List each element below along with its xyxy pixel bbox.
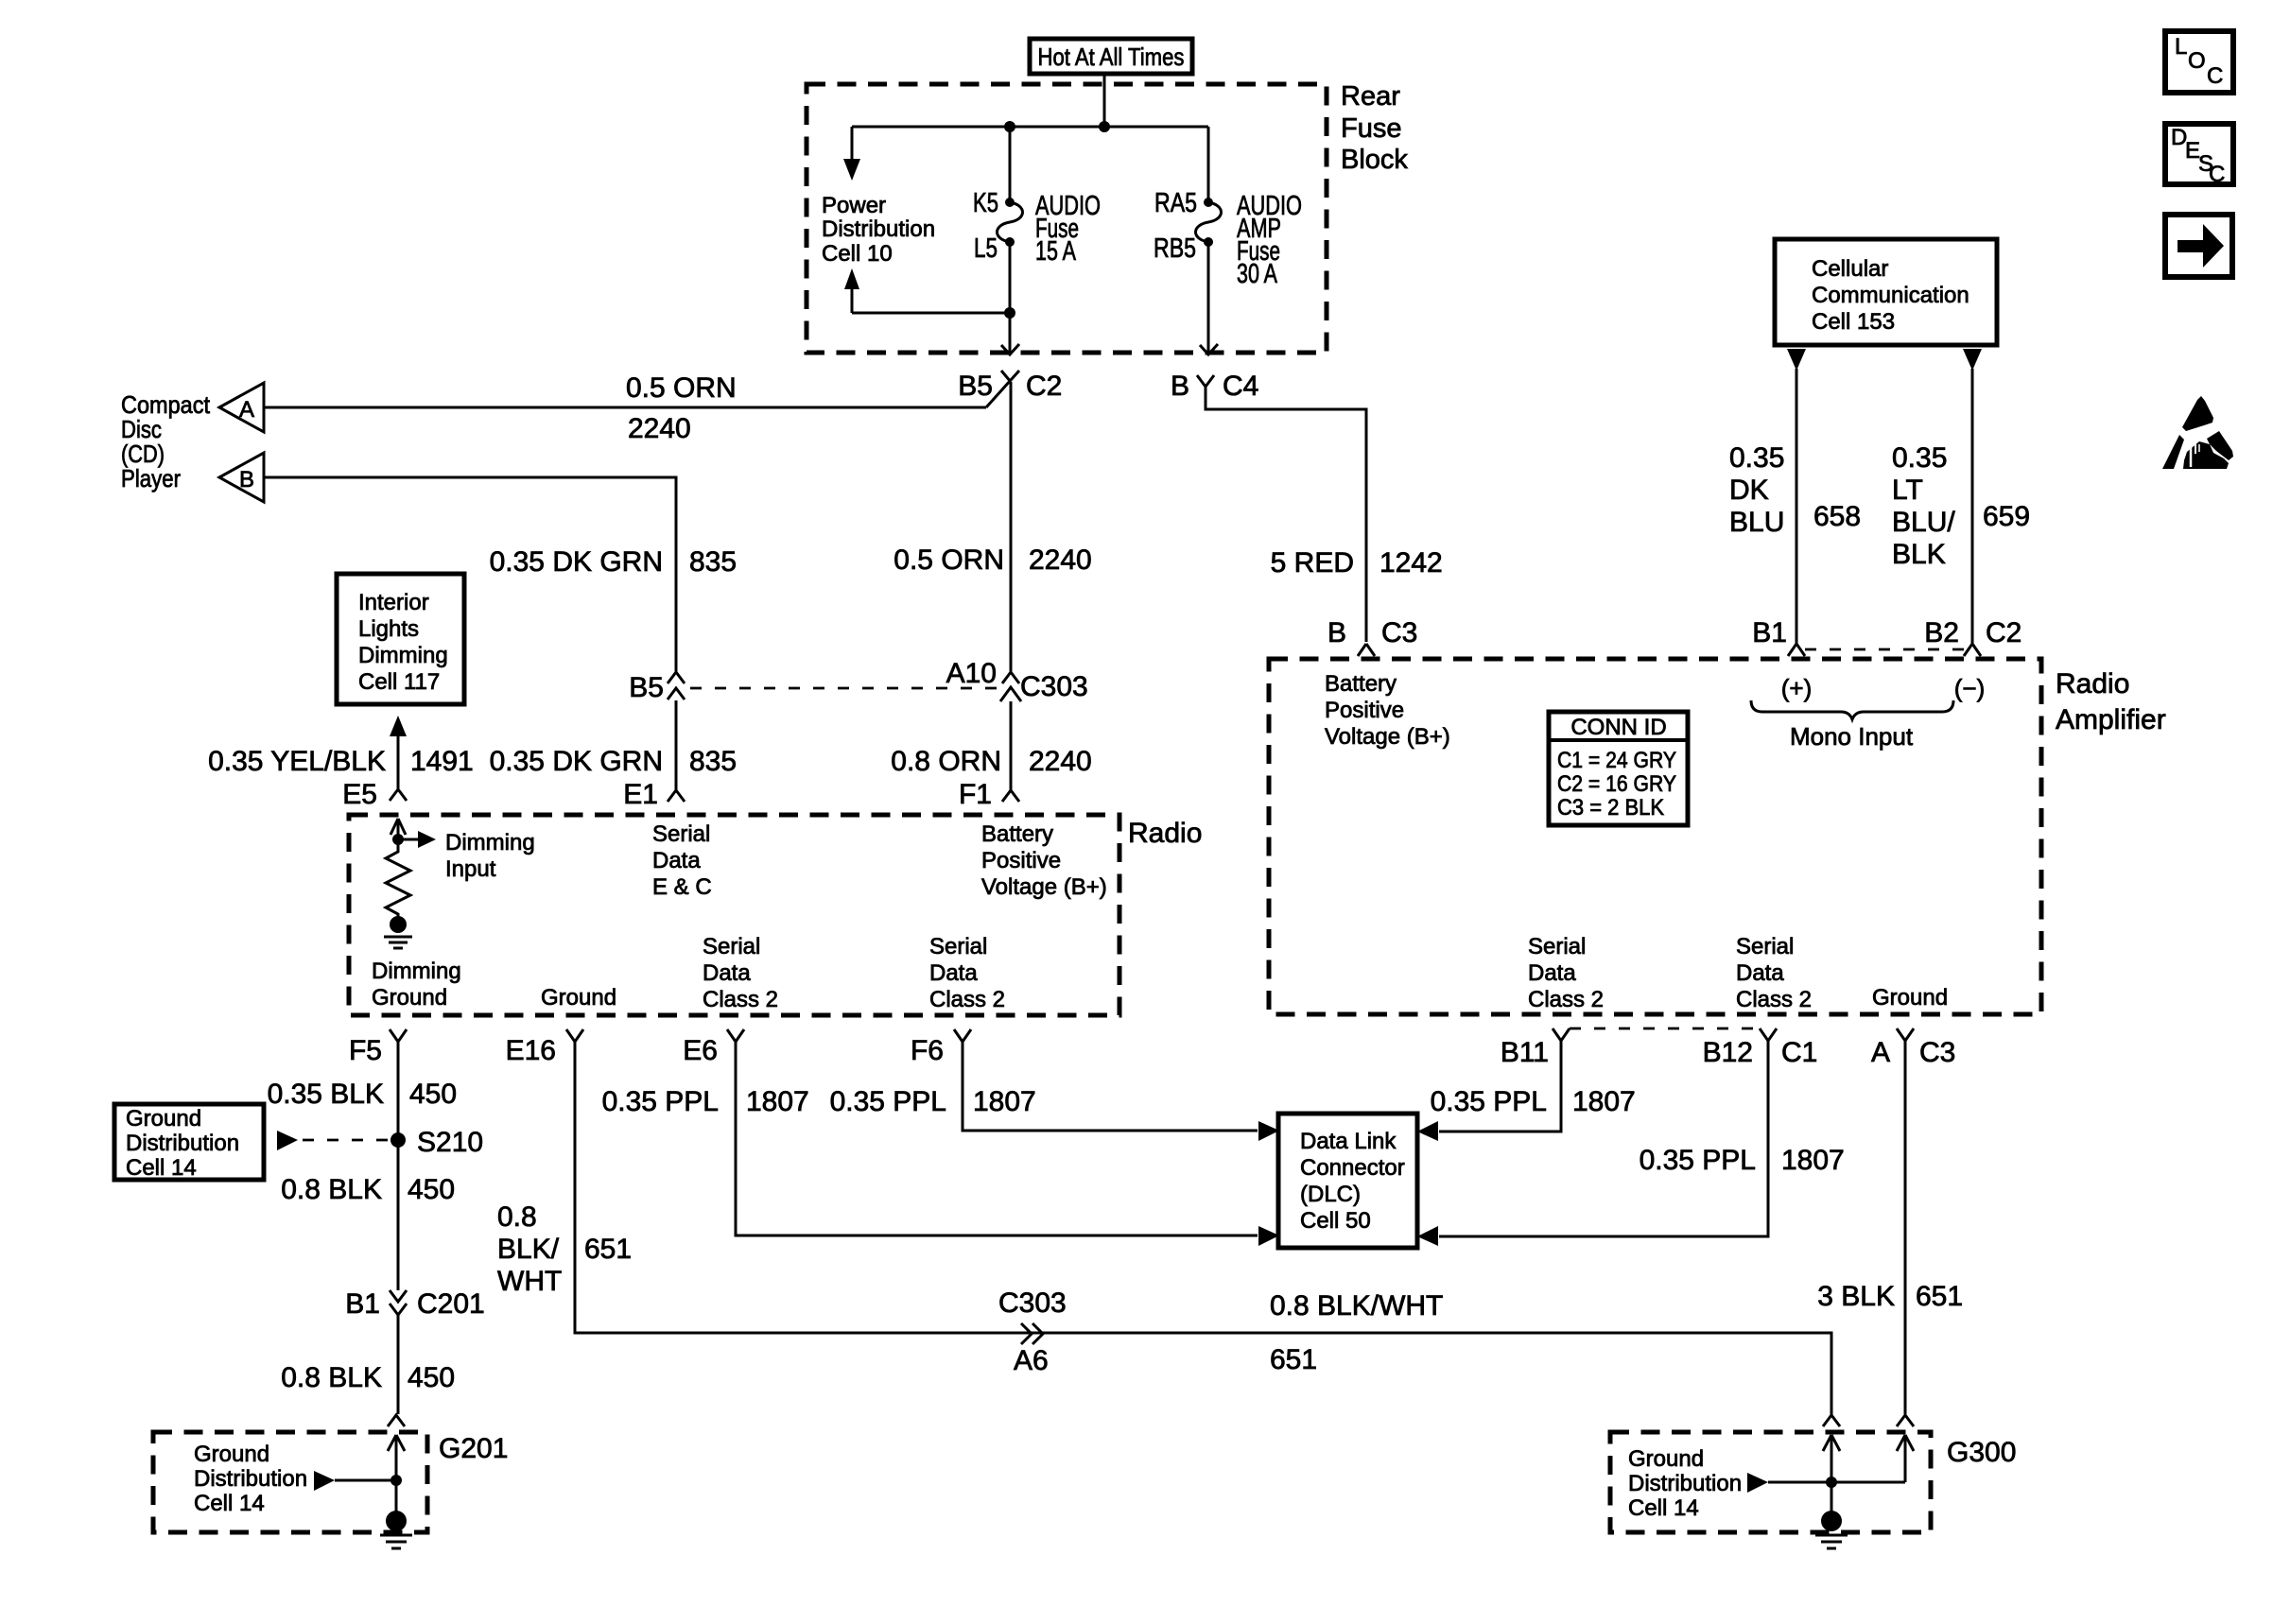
svg-text:Voltage (B+): Voltage (B+) — [1325, 724, 1450, 750]
dashed wire to S210 — [303, 1139, 388, 1142]
svg-text:0.8: 0.8 — [497, 1201, 537, 1233]
svg-text:CONN ID: CONN ID — [1570, 715, 1666, 740]
svg-text:2240: 2240 — [1029, 746, 1092, 777]
svg-text:L: L — [2175, 34, 2187, 60]
svg-text:659: 659 — [1983, 501, 2030, 532]
svg-text:WHT: WHT — [497, 1266, 562, 1297]
label Ground Distribution Cell 14 in G300 — [1628, 1446, 1742, 1521]
dimming input arrow inside radio — [390, 819, 406, 838]
label Battery Positive Voltage (B+) in amp — [1325, 671, 1450, 750]
svg-text:B: B — [1327, 617, 1346, 648]
svg-text:1242: 1242 — [1379, 547, 1443, 579]
label Serial Data Class 2 at F6 — [929, 934, 1005, 1012]
svg-text:Serial: Serial — [1528, 934, 1586, 959]
svg-text:Communication: Communication — [1812, 283, 1969, 308]
dashed pair line B1 B2 — [1805, 648, 1964, 651]
CD player triangle B — [219, 453, 264, 502]
svg-text:G300: G300 — [1947, 1437, 2016, 1468]
svg-text:B11: B11 — [1501, 1037, 1549, 1068]
label Battery Positive Voltage (B+) in radio — [981, 821, 1107, 900]
junction dot — [1004, 307, 1015, 319]
arrow into G201 — [388, 1435, 405, 1480]
svg-text:Lights: Lights — [358, 616, 419, 642]
svg-text:Class 2: Class 2 — [1736, 987, 1812, 1012]
connector B11 chevron — [1553, 1028, 1570, 1041]
svg-text:Dimming: Dimming — [358, 643, 448, 668]
dashed pair line B11 B12 — [1570, 1028, 1760, 1030]
wire E6 to DLC — [736, 1042, 1258, 1235]
svg-text:Distribution: Distribution — [822, 216, 935, 242]
arrow into DLC upper right — [1417, 1121, 1438, 1141]
svg-text:C: C — [2209, 162, 2225, 187]
svg-text:BLK/: BLK/ — [497, 1234, 560, 1265]
svg-text:0.35 PPL: 0.35 PPL — [602, 1086, 719, 1117]
arrow to Power Distribution — [843, 127, 860, 181]
svg-text:Battery: Battery — [1325, 671, 1397, 697]
arrow into G300 left — [1823, 1435, 1840, 1480]
wire A to G300 — [1904, 1041, 1907, 1414]
svg-text:Power: Power — [822, 193, 886, 218]
label 0.35 PPL 1807 at B12 — [1640, 1145, 1845, 1176]
svg-text:B5: B5 — [958, 371, 993, 402]
svg-text:1807: 1807 — [1572, 1086, 1636, 1117]
label 3 BLK 651 — [1817, 1281, 1963, 1312]
svg-text:Serial: Serial — [652, 821, 710, 847]
svg-text:Cell 117: Cell 117 — [358, 669, 440, 695]
svg-text:(DLC): (DLC) — [1300, 1182, 1361, 1207]
label 0.35 DK BLU 658 — [1729, 442, 1861, 538]
svg-text:Data: Data — [652, 848, 701, 873]
svg-text:Ground: Ground — [372, 985, 447, 1011]
wire from B5 chevron down to radio E1 — [675, 700, 678, 790]
Ground Distribution Cell 14 box upper left — [114, 1104, 264, 1181]
svg-text:BLU: BLU — [1729, 507, 1784, 538]
label 5 RED 1242 — [1271, 547, 1443, 579]
label 0.5 ORN 2240 — [626, 372, 737, 444]
svg-text:C201: C201 — [417, 1288, 485, 1320]
svg-text:E1: E1 — [623, 779, 658, 810]
svg-text:C1 = 24 GRY: C1 = 24 GRY — [1557, 748, 1676, 773]
svg-text:1807: 1807 — [746, 1086, 809, 1117]
svg-text:C2: C2 — [1986, 617, 2021, 648]
svg-text:658: 658 — [1813, 501, 1861, 532]
connector C4 Y symbol — [1197, 375, 1214, 387]
wire C4 to radio amplifier C3 — [1206, 387, 1366, 642]
label 0.35 LT BLU/ BLK 659 — [1892, 442, 2030, 570]
label Compact Disc (CD) Player — [121, 390, 211, 492]
svg-text:1807: 1807 — [973, 1086, 1036, 1117]
svg-text:Voltage (B+): Voltage (B+) — [981, 874, 1107, 900]
svg-text:Player: Player — [121, 464, 181, 492]
label 0.8 BLK/ WHT 651 — [497, 1201, 632, 1297]
connector E16 chevron — [566, 1029, 583, 1042]
svg-text:E5: E5 — [342, 779, 377, 810]
svg-text:Fuse: Fuse — [1341, 113, 1401, 144]
wire from rail to connector C2 with harpoon — [1001, 313, 1019, 354]
arrow icon box — [2165, 215, 2232, 277]
svg-text:Data Link: Data Link — [1300, 1129, 1397, 1154]
connector C3 pin B chevron — [1358, 644, 1375, 656]
svg-text:Dimming: Dimming — [445, 830, 535, 855]
svg-text:1807: 1807 — [1781, 1145, 1845, 1176]
Radio dashed box — [349, 815, 1119, 1015]
svg-text:C: C — [2207, 63, 2223, 89]
connector C303 pin A10 double chevron — [1000, 672, 1021, 701]
svg-text:Connector: Connector — [1300, 1155, 1405, 1181]
connector chevron above G300 left — [1823, 1415, 1840, 1426]
ESD symbol — [2162, 396, 2233, 469]
svg-text:30 A: 30 A — [1237, 259, 1277, 289]
wire from Hot At All Times into fuse block — [1103, 74, 1106, 127]
connector C3 pin A chevron — [1897, 1028, 1914, 1041]
svg-text:Mono Input: Mono Input — [1790, 722, 1914, 751]
connector C2 Y symbol with diagonal feed — [986, 371, 1019, 407]
dot at resistor bottom — [390, 916, 407, 933]
svg-text:B: B — [239, 467, 254, 492]
wire from fuse to lower rail — [1009, 242, 1012, 313]
arrow into G300 right — [1897, 1435, 1914, 1482]
svg-text:A: A — [1871, 1037, 1890, 1068]
svg-text:0.35 DK GRN: 0.35 DK GRN — [490, 746, 663, 777]
label Dimming Ground — [372, 959, 461, 1011]
arrow into DLC lower right — [1417, 1226, 1438, 1246]
wire to ground G300 — [1831, 1482, 1833, 1516]
svg-text:2240: 2240 — [628, 413, 691, 444]
fuse AUDIO 15 A — [998, 198, 1023, 247]
inline connector C303 pin A6 on ground run — [1021, 1323, 1043, 1344]
svg-text:Serial: Serial — [929, 934, 987, 959]
label AUDIO AMP Fuse 30 A — [1237, 191, 1302, 289]
svg-text:Class 2: Class 2 — [703, 987, 778, 1012]
svg-text:15 A: 15 A — [1035, 236, 1076, 267]
svg-text:Cell 14: Cell 14 — [126, 1155, 197, 1181]
connector B1 chevron — [1788, 644, 1805, 656]
svg-text:C3: C3 — [1381, 617, 1417, 648]
label 0.35 PPL 1807 at B11 — [1431, 1086, 1636, 1117]
svg-text:Serial: Serial — [703, 934, 760, 959]
svg-text:B: B — [1171, 371, 1189, 402]
Interior Lights Dimming box — [337, 574, 464, 704]
svg-text:LT: LT — [1892, 475, 1923, 506]
label 0.35 DK GRN 835 upper — [490, 546, 737, 578]
CONN ID table — [1549, 712, 1688, 825]
svg-text:Dimming: Dimming — [372, 959, 461, 984]
svg-text:Cell 14: Cell 14 — [1628, 1495, 1699, 1521]
splice S210 — [390, 1132, 406, 1148]
label 0.8 BLK 450 lower — [281, 1362, 455, 1393]
junction dot G201 — [390, 1475, 402, 1486]
label 0.8 ORN 2240 — [891, 746, 1091, 777]
wire to AUDIO AMP fuse — [1207, 127, 1210, 201]
connector E5 chevron — [390, 789, 407, 801]
svg-text:0.35 DK GRN: 0.35 DK GRN — [490, 546, 663, 578]
svg-text:0.35 PPL: 0.35 PPL — [830, 1086, 946, 1117]
svg-text:Data: Data — [929, 960, 978, 986]
svg-text:Input: Input — [445, 856, 496, 882]
wire from S210 to C201 — [397, 1140, 400, 1290]
connector E6 chevron — [727, 1029, 744, 1042]
svg-text:L5: L5 — [974, 233, 998, 264]
svg-text:450: 450 — [408, 1174, 455, 1205]
svg-text:C303: C303 — [1020, 671, 1088, 702]
brace mono input — [1751, 700, 1953, 719]
svg-text:BLK: BLK — [1892, 539, 1946, 570]
svg-text:C3 = 2 BLK: C3 = 2 BLK — [1557, 795, 1664, 821]
connector C201 pin B1 double chevron — [390, 1290, 407, 1414]
svg-text:A: A — [239, 397, 254, 423]
ground symbol dimming — [384, 937, 412, 948]
resistor dimming — [386, 839, 410, 917]
svg-text:Ground: Ground — [126, 1106, 201, 1132]
CD player triangle A — [219, 383, 264, 432]
wire B11 to DLC — [1439, 1041, 1561, 1132]
wire from A10 down to radio F1 — [1010, 701, 1013, 790]
fuse AUDIO AMP 30 A — [1196, 198, 1222, 247]
label Power Distribution Cell 10 — [822, 193, 935, 267]
label 0.8 BLK/WHT 651 on ground run — [1270, 1290, 1443, 1375]
svg-text:Serial: Serial — [1736, 934, 1794, 959]
connector C303 pin B5 double chevron — [668, 672, 685, 700]
connector chevron above G300 right — [1897, 1415, 1914, 1426]
svg-text:5 RED: 5 RED — [1271, 547, 1354, 579]
svg-text:B12: B12 — [1703, 1037, 1753, 1068]
wire F6 to DLC — [963, 1042, 1258, 1131]
svg-text:(+): (+) — [1781, 674, 1813, 702]
svg-text:RB5: RB5 — [1154, 233, 1196, 264]
svg-text:Block: Block — [1341, 145, 1408, 175]
Data Link Connector box — [1278, 1114, 1417, 1248]
svg-text:835: 835 — [689, 546, 737, 578]
junction dot — [1004, 121, 1015, 132]
label Dimming Input — [445, 830, 535, 882]
svg-text:Data: Data — [1528, 960, 1576, 986]
svg-text:F5: F5 — [349, 1035, 382, 1066]
junction dot G300 — [1826, 1477, 1837, 1488]
svg-text:RA5: RA5 — [1154, 188, 1197, 218]
label Serial Data E &amp; C — [652, 821, 712, 900]
svg-text:A10: A10 — [946, 658, 997, 689]
wire C2 down the middle — [1010, 382, 1013, 671]
G201 ground distribution dashed box — [153, 1432, 427, 1532]
svg-text:F6: F6 — [911, 1035, 944, 1066]
svg-text:B1: B1 — [1752, 617, 1787, 648]
LOC icon box — [2165, 31, 2233, 93]
Rear Fuse Block dashed box — [807, 84, 1327, 353]
svg-text:C4: C4 — [1223, 371, 1258, 402]
svg-text:0.35 YEL/BLK: 0.35 YEL/BLK — [208, 746, 386, 777]
svg-text:Distribution: Distribution — [126, 1131, 239, 1156]
ground G300 — [1815, 1511, 1848, 1548]
ground G201 — [380, 1511, 412, 1548]
svg-text:0.8 BLK: 0.8 BLK — [281, 1362, 382, 1393]
arrow into DLC upper left — [1258, 1121, 1279, 1141]
svg-text:O: O — [2188, 48, 2206, 74]
svg-text:Ground: Ground — [1872, 985, 1948, 1011]
svg-text:E & C: E & C — [652, 874, 712, 900]
svg-text:Class 2: Class 2 — [1528, 987, 1604, 1012]
svg-text:Cellular: Cellular — [1812, 256, 1888, 282]
wire B12 to DLC — [1439, 1041, 1768, 1236]
svg-text:C2 = 16 GRY: C2 = 16 GRY — [1557, 771, 1676, 797]
svg-text:F1: F1 — [959, 779, 992, 810]
svg-text:Ground: Ground — [541, 985, 616, 1011]
label Ground Distribution Cell 14 in G201 — [194, 1442, 307, 1516]
arrow up from lower rail to Power Distribution — [844, 268, 859, 313]
svg-text:E16: E16 — [506, 1035, 556, 1066]
connector C1 pin B12 chevron — [1760, 1028, 1777, 1041]
connector chevron above G201 — [388, 1415, 405, 1426]
lower rail wire — [852, 312, 1010, 315]
svg-text:G201: G201 — [439, 1433, 508, 1464]
label Serial Data Class 2 at B11 — [1528, 934, 1604, 1012]
svg-text:Distribution: Distribution — [194, 1466, 307, 1492]
svg-text:Data: Data — [703, 960, 751, 986]
wire B from CD player — [264, 477, 676, 671]
label Serial Data Class 2 at B12 — [1736, 934, 1812, 1012]
svg-text:C303: C303 — [998, 1287, 1067, 1319]
svg-text:Radio: Radio — [1128, 818, 1202, 849]
connector C2 pin B2 chevron — [1964, 644, 1981, 656]
svg-text:B2: B2 — [1924, 617, 1959, 648]
connector E1 chevron — [668, 790, 685, 802]
svg-text:1491: 1491 — [410, 746, 474, 777]
Radio Amplifier dashed box — [1269, 659, 2041, 1014]
arrow right inside G300 — [1747, 1473, 1905, 1493]
svg-text:Data: Data — [1736, 960, 1784, 986]
arrow up into Interior Lights box — [390, 716, 407, 788]
svg-text:Distribution: Distribution — [1628, 1471, 1742, 1496]
svg-text:0.8 BLK: 0.8 BLK — [281, 1174, 382, 1205]
svg-text:0.35 PPL: 0.35 PPL — [1640, 1145, 1756, 1176]
connector F6 chevron — [954, 1029, 971, 1042]
svg-text:Positive: Positive — [981, 848, 1061, 873]
svg-text:K5: K5 — [973, 188, 998, 218]
label 0.35 PPL 1807 at F6 — [830, 1086, 1036, 1117]
svg-text:450: 450 — [409, 1079, 457, 1110]
svg-text:3 BLK: 3 BLK — [1817, 1281, 1895, 1312]
bus rail wire inside fuse block — [852, 126, 1208, 129]
connector F5 chevron — [390, 1029, 407, 1140]
svg-text:(−): (−) — [1954, 674, 1986, 702]
svg-text:0.35: 0.35 — [1729, 442, 1784, 474]
svg-text:C3: C3 — [1919, 1037, 1955, 1068]
svg-text:2240: 2240 — [1029, 544, 1092, 576]
svg-text:E6: E6 — [683, 1035, 718, 1066]
connector C4 pin B labels — [1171, 371, 1258, 402]
label Radio Amplifier — [2056, 668, 2166, 735]
svg-text:DK: DK — [1729, 475, 1769, 506]
wire into AUDIO fuse — [1009, 127, 1012, 201]
svg-text:Positive: Positive — [1325, 698, 1404, 723]
svg-text:Cell 50: Cell 50 — [1300, 1208, 1371, 1234]
wire E16 ground run — [575, 1042, 1831, 1415]
wire from AMP fuse to connector C4 with harpoon — [1200, 242, 1218, 354]
svg-text:651: 651 — [1270, 1344, 1317, 1375]
wire A from CD player to C2 — [264, 406, 986, 409]
arrow down from cellular left — [1787, 349, 1806, 644]
label Rear Fuse Block — [1341, 81, 1408, 175]
svg-text:Interior: Interior — [358, 590, 429, 615]
svg-text:Cell 153: Cell 153 — [1812, 309, 1895, 335]
svg-text:0.5 ORN: 0.5 ORN — [894, 544, 1004, 576]
label 0.35 PPL 1807 at E6 — [602, 1086, 809, 1117]
svg-text:C2: C2 — [1026, 371, 1062, 402]
connector C2 pin B5 labels — [958, 371, 1062, 402]
Hot At All Times box — [1030, 39, 1192, 74]
label Serial Data Class 2 at E6 — [703, 934, 778, 1012]
label AUDIO Fuse 15 A — [1035, 191, 1101, 267]
label 0.35 YEL/BLK 1491 — [208, 746, 474, 777]
label 0.8 BLK 450 — [281, 1174, 455, 1205]
svg-text:450: 450 — [408, 1362, 455, 1393]
DESC icon box — [2165, 124, 2233, 187]
Cellular Communication box — [1775, 239, 1997, 345]
svg-text:A6: A6 — [1014, 1345, 1049, 1376]
svg-text:0.8 ORN: 0.8 ORN — [891, 746, 1001, 777]
svg-text:Cell 14: Cell 14 — [194, 1491, 265, 1516]
junction dot — [1099, 121, 1110, 132]
arrow right to Dimming Input label — [398, 831, 436, 848]
svg-text:Radio: Radio — [2056, 668, 2129, 700]
label 0.35 DK GRN 835 lower — [490, 746, 737, 777]
svg-text:0.35 BLK: 0.35 BLK — [268, 1079, 384, 1110]
svg-text:B5: B5 — [629, 672, 664, 703]
svg-text:651: 651 — [584, 1234, 632, 1265]
wire to ground G201 — [395, 1480, 398, 1516]
svg-text:0.35 PPL: 0.35 PPL — [1431, 1086, 1547, 1117]
svg-text:Cell 10: Cell 10 — [822, 241, 893, 267]
svg-text:0.8 BLK/WHT: 0.8 BLK/WHT — [1270, 1290, 1443, 1322]
svg-text:0.35: 0.35 — [1892, 442, 1947, 474]
svg-text:S210: S210 — [417, 1127, 483, 1158]
arrow into DLC lower left — [1258, 1226, 1279, 1246]
arrow right to wire in G201 — [314, 1471, 396, 1491]
svg-text:0.5 ORN: 0.5 ORN — [626, 372, 737, 404]
svg-text:Amplifier: Amplifier — [2056, 704, 2166, 735]
svg-text:Hot At All Times: Hot At All Times — [1038, 43, 1185, 71]
twisted pair dashed line B5 to A10 — [690, 687, 998, 690]
svg-text:Ground: Ground — [194, 1442, 269, 1467]
arrow from ground distribution to S210 — [277, 1131, 298, 1150]
junction dot dimming — [392, 834, 404, 845]
svg-text:Class 2: Class 2 — [929, 987, 1005, 1012]
svg-text:BLU/: BLU/ — [1892, 507, 1955, 538]
svg-text:Battery: Battery — [981, 821, 1053, 847]
svg-text:Ground: Ground — [1628, 1446, 1704, 1472]
svg-text:835: 835 — [689, 746, 737, 777]
label 0.35 BLK 450 — [268, 1079, 458, 1110]
svg-text:651: 651 — [1916, 1281, 1963, 1312]
svg-text:C1: C1 — [1781, 1037, 1817, 1068]
arrow down from cellular right — [1963, 349, 1982, 644]
svg-text:B1: B1 — [345, 1288, 380, 1320]
G300 ground distribution dashed box — [1610, 1432, 1931, 1532]
label 0.5 ORN 2240 middle — [894, 544, 1091, 576]
connector F1 chevron — [1002, 790, 1019, 802]
svg-text:Rear: Rear — [1341, 81, 1400, 112]
